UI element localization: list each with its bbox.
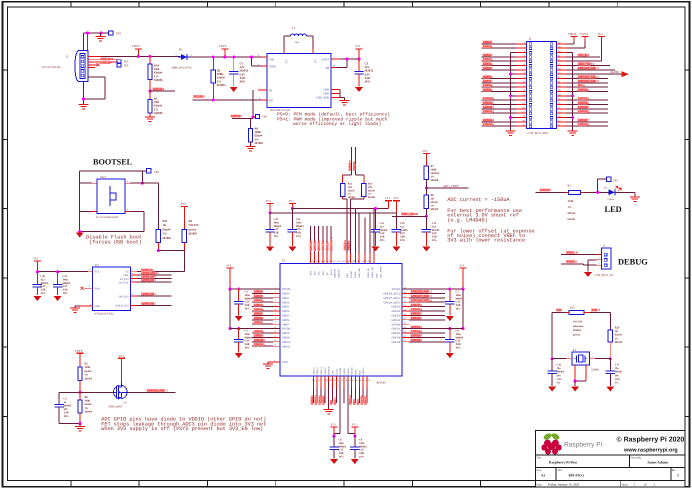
- U3 pin stubs left: [88, 271, 93, 273]
- svg-text:63mW: 63mW: [85, 403, 93, 406]
- resistor R2 VBUS to 3V3_EN: [212, 56, 215, 59]
- resistor R9: [425, 188, 427, 195]
- ground under C7: [446, 316, 454, 321]
- capacitor C5: [238, 329, 240, 340]
- svg-text:XOUT: XOUT: [335, 368, 338, 375]
- wire IOVDD verticals to chip top: [354, 209, 356, 254]
- svg-text:XIN: XIN: [332, 370, 335, 374]
- testpoint TP5: [597, 179, 599, 192]
- U1 bottom pin wires: [312, 376, 314, 382]
- svg-text:GPIO24: GPIO24: [153, 87, 164, 91]
- svg-text:GPIO24: GPIO24: [391, 310, 400, 313]
- svg-text:GPIO2: GPIO2: [282, 301, 290, 304]
- svg-text:D1: D1: [179, 48, 183, 52]
- svg-text:GPIO26_ADC0: GPIO26_ADC0: [383, 301, 400, 304]
- wire SW1 to R11: [142, 182, 158, 184]
- svg-text:41: 41: [404, 322, 406, 325]
- svg-text:2: 2: [599, 257, 600, 260]
- svg-text:DVDD: DVDD: [347, 368, 350, 375]
- svg-text:GPIO12: GPIO12: [312, 368, 315, 375]
- svg-text:1%: 1%: [85, 407, 89, 410]
- svg-text:USB_DM: USB_DM: [344, 239, 347, 250]
- resistor R4 NO-FIT: [182, 230, 186, 243]
- svg-text:GPIO5: GPIO5: [254, 312, 264, 316]
- resistor R11: [156, 230, 160, 243]
- wire R3 to LED: [584, 191, 608, 193]
- svg-text:GPIO10: GPIO10: [254, 338, 265, 342]
- svg-text:TP3: TP3: [124, 63, 129, 67]
- ground J2 left: [506, 130, 516, 132]
- svg-text:SWD: SWD: [353, 398, 356, 404]
- svg-text:M1005: M1005: [431, 208, 439, 211]
- svg-text:R16: R16: [615, 326, 620, 329]
- testpoint TP2: [117, 60, 121, 63]
- svg-text:R15: R15: [570, 305, 575, 309]
- title block frame: [536, 431, 686, 487]
- svg-text:10%: 10%: [296, 235, 302, 238]
- resistor R13 USB_DP: [363, 175, 365, 183]
- svg-text:C16: C16: [557, 364, 562, 367]
- svg-text:8: 8: [275, 317, 276, 320]
- svg-text:GND_PAD: GND_PAD: [316, 97, 329, 100]
- ground under C4: [235, 316, 243, 321]
- svg-text:20%: 20%: [400, 239, 406, 242]
- capacitor C11: [291, 209, 293, 230]
- svg-text:SWDIO: SWDIO: [567, 260, 578, 264]
- wire SWDIO to pin3: [582, 263, 584, 265]
- svg-text:GPIO16: GPIO16: [362, 367, 365, 375]
- ground under C1: [230, 87, 238, 92]
- ground under C10: [266, 247, 274, 252]
- svg-text:VCC: VCC: [95, 271, 101, 274]
- J2 left pin wires and GPIO net labels: [517, 43, 527, 45]
- svg-text:© Raspberry Pi 2020: © Raspberry Pi 2020: [617, 436, 685, 444]
- J2 right GPIO net labels: [567, 77, 609, 79]
- svg-text:X1: X1: [573, 348, 577, 352]
- svg-text:DMG3406T: DMG3406T: [109, 406, 123, 409]
- svg-text:IOVDD: IOVDD: [350, 271, 353, 278]
- svg-text:BOOTSEL: BOOTSEL: [93, 158, 133, 167]
- svg-text:RT6150B-33GQW: RT6150B-33GQW: [270, 109, 291, 112]
- svg-text:Raspberry Pi: Raspberry Pi: [564, 442, 603, 449]
- svg-text:DVDD: DVDD: [354, 271, 357, 278]
- svg-text:GPIO28_ADC2: GPIO28_ADC2: [411, 290, 432, 294]
- power 1V1 bottom: [347, 430, 349, 434]
- ground under C13: [422, 247, 430, 252]
- capacitor C13: [425, 218, 427, 230]
- svg-text:3V3: 3V3: [226, 263, 232, 267]
- svg-text:USB_VDD: USB_VDD: [358, 267, 361, 278]
- svg-text:C0G: C0G: [615, 378, 620, 381]
- svg-text:DVDD: DVDD: [343, 368, 346, 375]
- svg-text:when 3V3 supply is off (VSYS p: when 3V3 supply is off (VSYS present but…: [101, 426, 263, 432]
- svg-text:5: 5: [275, 304, 276, 307]
- pin 1 VBUS wire: [88, 55, 101, 57]
- wire QSPI_SS to BOOTSEL: [172, 271, 185, 273]
- svg-text:3V3: 3V3: [331, 422, 337, 426]
- net label XIN crystal: [556, 309, 561, 312]
- svg-text:GPIO1: GPIO1: [483, 44, 493, 48]
- ground under C9: [351, 459, 359, 464]
- X1 ground pins: [574, 365, 576, 381]
- svg-text:M1005: M1005: [154, 78, 163, 82]
- svg-text:L1: L1: [292, 26, 296, 30]
- pin stubs U2 left: [262, 56, 267, 58]
- svg-text:10%: 10%: [245, 347, 251, 350]
- wire USB_DM from USB port: [351, 147, 353, 175]
- svg-text:VSYS: VSYS: [580, 32, 588, 36]
- svg-text:RUN: RUN: [357, 399, 360, 405]
- svg-text:63mW: 63mW: [85, 370, 93, 373]
- buck regulator U2 RT6150B: [267, 54, 331, 108]
- U3 GND pin: [80, 305, 93, 307]
- svg-text:15p: 15p: [557, 367, 562, 370]
- svg-text:LED: LED: [605, 205, 622, 214]
- svg-text:12: 12: [274, 335, 276, 338]
- svg-text:GPIO13: GPIO13: [483, 109, 494, 113]
- J2 left GND rail: [510, 52, 512, 130]
- svg-text:(forces USB boot): (forces USB boot): [89, 239, 142, 245]
- svg-text:7: 7: [275, 313, 276, 316]
- svg-text:M0402: M0402: [368, 196, 376, 199]
- wire R11/R4 to QSPI_SS: [157, 243, 159, 251]
- capacitor C8: [449, 329, 451, 340]
- ground under C6: [330, 459, 338, 464]
- svg-text:TP1: TP1: [116, 32, 122, 36]
- net label GPIO23: [232, 118, 253, 120]
- capacitor C9: [354, 436, 356, 447]
- svg-text:WP_IO2: WP_IO2: [119, 295, 129, 298]
- svg-text:1V1: 1V1: [289, 199, 295, 203]
- power 3V3 for R4: [181, 206, 188, 208]
- capacitor C1: [232, 56, 235, 59]
- Raspberry Pi logo: [541, 432, 561, 454]
- capacitor C3: [358, 59, 360, 71]
- testpoint TP4: [252, 116, 255, 119]
- svg-text:CON_PICO_40W: CON_PICO_40W: [528, 132, 549, 135]
- svg-text:ADC_AVDD: ADC_AVDD: [402, 212, 420, 216]
- svg-text:GPIO5: GPIO5: [483, 66, 493, 70]
- svg-text:3V3: 3V3: [598, 32, 604, 36]
- svg-text:Date:: Date:: [537, 483, 543, 486]
- svg-text:VDD: VDD: [346, 273, 349, 278]
- svg-text:GPIO7: GPIO7: [282, 323, 290, 326]
- ground under C5: [235, 353, 243, 358]
- svg-text:57: 57: [274, 359, 276, 362]
- svg-text:TP4: TP4: [262, 115, 267, 119]
- net label GPIO29_ADC3: [128, 391, 175, 393]
- pin stubs U2 right: [331, 58, 340, 60]
- svg-text:TP-1251U48404503B: TP-1251U48404503B: [96, 216, 119, 219]
- U1 left GPIO wires and labels: [252, 292, 273, 294]
- svg-text:GPIO25: GPIO25: [540, 188, 551, 192]
- svg-text:Friday, January 15, 2021: Friday, January 15, 2021: [548, 483, 580, 487]
- svg-text:3V3: 3V3: [355, 44, 361, 48]
- svg-text:1%: 1%: [568, 206, 572, 209]
- svg-text:GPIO27_ADC1: GPIO27_ADC1: [383, 297, 400, 300]
- svg-text:USB_DP: USB_DP: [101, 61, 113, 65]
- svg-text:EN: EN: [269, 99, 273, 102]
- svg-text:GPIO19: GPIO19: [391, 337, 400, 340]
- svg-text:M1005: M1005: [217, 83, 226, 87]
- resistor R10: [149, 55, 152, 58]
- svg-text:GPIO20: GPIO20: [411, 329, 422, 333]
- svg-text:3V3_EN: 3V3_EN: [578, 53, 590, 57]
- svg-text:10%: 10%: [456, 308, 462, 311]
- svg-text:RPI-PICO: RPI-PICO: [569, 473, 585, 477]
- svg-text:3V3: 3V3: [422, 149, 428, 153]
- svg-text:GPIO23: GPIO23: [411, 312, 422, 316]
- svg-text:GPIO16: GPIO16: [578, 122, 589, 126]
- resistor R1: [149, 91, 151, 99]
- svg-text:QSPI_SD2: QSPI_SD2: [142, 292, 157, 296]
- capacitor C7: [449, 289, 451, 302]
- ground under R1: [149, 113, 151, 117]
- svg-text:SW1: SW1: [101, 176, 107, 179]
- svg-text:VSYS: VSYS: [219, 44, 227, 48]
- svg-text:M1005: M1005: [85, 377, 93, 380]
- svg-text:GND: GND: [323, 89, 329, 92]
- svg-text:GPIO22: GPIO22: [391, 319, 400, 322]
- svg-text:DEBUG: DEBUG: [618, 258, 648, 267]
- pin 5 GND wire: [88, 67, 95, 69]
- ground under R6: [250, 142, 252, 146]
- svg-text:GPIO23: GPIO23: [391, 315, 400, 318]
- svg-text:GPIO2: GPIO2: [254, 299, 264, 303]
- net label GPIO17 bottom: [366, 376, 368, 382]
- svg-text:R3: R3: [568, 184, 572, 188]
- svg-text:SCLK: SCLK: [330, 269, 333, 275]
- svg-text:10%: 10%: [339, 456, 345, 459]
- svg-text:VINA: VINA: [269, 65, 276, 68]
- svg-text:9: 9: [89, 285, 90, 288]
- border row ticks left/right: [3, 69, 8, 71]
- testpoint TP1: [109, 31, 113, 35]
- ground under C11: [288, 247, 296, 252]
- svg-text:1K: 1K: [615, 330, 618, 333]
- svg-text:GPIO17: GPIO17: [364, 395, 367, 405]
- power VBUS: [135, 48, 142, 50]
- svg-text:MBR120VLSFT1G: MBR120VLSFT1G: [172, 67, 193, 70]
- svg-text:M1005: M1005: [189, 232, 198, 236]
- svg-text:GPIO13: GPIO13: [316, 367, 319, 375]
- power 1V1 top rail: [289, 203, 296, 205]
- svg-text:power: power: [573, 333, 581, 336]
- U3 QSPI pin wires: [131, 271, 137, 273]
- capacitor C16: [551, 359, 553, 371]
- net label ADC_VREF pin35: [567, 64, 611, 66]
- svg-text:48: 48: [404, 291, 406, 294]
- svg-text:GPIO10: GPIO10: [282, 341, 291, 344]
- power 3V3 left rail: [227, 267, 234, 269]
- wire 3V3 rail top: [270, 212, 396, 214]
- svg-text:3V3: 3V3: [119, 354, 125, 358]
- svg-text:QSPI_SD3: QSPI_SD3: [310, 239, 313, 251]
- svg-text:GPIO26_ADC0: GPIO26_ADC0: [411, 299, 432, 303]
- svg-text:GPIO16: GPIO16: [361, 395, 364, 405]
- svg-text:GPIO12: GPIO12: [311, 395, 314, 405]
- wire VOUT to 3V3: [340, 58, 359, 60]
- svg-text:SD2: SD2: [314, 271, 317, 275]
- wire IOVDD right rail: [402, 288, 463, 290]
- svg-text:43: 43: [404, 313, 406, 316]
- svg-text:GPIO11: GPIO11: [282, 345, 291, 348]
- svg-text:20%: 20%: [41, 292, 47, 295]
- svg-text:XIN: XIN: [557, 308, 563, 312]
- svg-text:SWCLK: SWCLK: [567, 250, 579, 254]
- net label ADC_VREF: [425, 179, 427, 188]
- svg-text:GND: GND: [323, 93, 329, 96]
- svg-text:10%: 10%: [63, 292, 69, 295]
- svg-text:3V3: 3V3: [394, 196, 400, 200]
- svg-text:10%: 10%: [456, 347, 462, 350]
- svg-text:GPIO4: GPIO4: [254, 307, 264, 311]
- svg-text:Sheet: Sheet: [622, 483, 628, 486]
- svg-text:GPIO24: GPIO24: [411, 307, 422, 311]
- svg-text:GPIO8: GPIO8: [282, 332, 290, 335]
- svg-text:USB_DP: USB_DP: [353, 161, 356, 171]
- svg-text:CS: CS: [125, 270, 129, 273]
- svg-text:GPIO18: GPIO18: [578, 109, 589, 113]
- svg-text:M1005: M1005: [568, 212, 577, 215]
- svg-text:37: 37: [404, 339, 406, 342]
- wire PS/EN rail: [252, 90, 254, 117]
- svg-text:10%: 10%: [245, 308, 251, 311]
- svg-text:GPIO15: GPIO15: [483, 122, 494, 126]
- svg-text:of: of: [644, 483, 647, 487]
- ground LED: [630, 196, 640, 198]
- svg-text:2: 2: [275, 291, 276, 294]
- power 3V3 top rail: [267, 203, 274, 205]
- power VSYS pin39: [567, 47, 586, 49]
- wire crystal left: [551, 313, 553, 359]
- J2 right GND rail: [567, 51, 573, 53]
- svg-text:M1005: M1005: [255, 141, 264, 145]
- svg-text:5%: 5%: [557, 382, 561, 385]
- svg-text:GPIO5: GPIO5: [282, 315, 290, 318]
- svg-text:U3: U3: [95, 263, 99, 267]
- svg-text:56 55 54 53 52 51 50 49 48 47: 56 55 54 53 52 51 50 49 48 47 46 45: [311, 260, 371, 263]
- svg-text:USB_DP: USB_DP: [348, 240, 351, 250]
- svg-text:GPIO9: GPIO9: [282, 337, 290, 340]
- power 3V3 right rail: [460, 267, 467, 269]
- svg-text:4: 4: [275, 300, 276, 303]
- svg-text:GPIO28_ADC2: GPIO28_ADC2: [578, 66, 599, 70]
- capacitor C19: [36, 272, 38, 285]
- svg-text:QSPI_SD2: QSPI_SD2: [314, 239, 317, 251]
- svg-text:50V: 50V: [615, 374, 620, 377]
- net label USB_DM: [100, 58, 110, 61]
- svg-text:QSPI_SD3: QSPI_SD3: [142, 301, 157, 305]
- svg-text:QSPI_SD1: QSPI_SD1: [318, 239, 321, 251]
- svg-text:HOLD_IO3: HOLD_IO3: [116, 305, 130, 308]
- svg-text:1%: 1%: [615, 337, 619, 340]
- ground under J1: [79, 104, 89, 106]
- svg-text:11: 11: [274, 330, 276, 333]
- svg-text:XOUT: XOUT: [592, 308, 602, 312]
- net label 3V3_EN: [193, 99, 263, 101]
- svg-text:VREG_IN: VREG_IN: [367, 268, 370, 278]
- svg-text:GPIO3: GPIO3: [282, 306, 290, 309]
- svg-text:RP2040: RP2040: [377, 381, 387, 385]
- net label ADC_AVDD: [425, 209, 427, 217]
- svg-text:GPIO6: GPIO6: [282, 319, 290, 322]
- capacitor C10: [269, 213, 271, 230]
- svg-text:1: 1: [599, 252, 600, 255]
- svg-text:M1005: M1005: [615, 341, 623, 344]
- svg-text:3: 3: [275, 295, 276, 298]
- svg-text:(e.g. LM4040): (e.g. LM4040): [447, 217, 487, 223]
- svg-text:50V: 50V: [557, 374, 562, 377]
- svg-text:GPIO19: GPIO19: [411, 334, 422, 338]
- capacitor C14: [395, 213, 397, 230]
- svg-text:VDD: VDD: [376, 273, 379, 278]
- svg-text:worse efficiency at light load: worse efficiency at light loads): [293, 121, 381, 127]
- svg-text:VREG_OUT: VREG_OUT: [371, 266, 374, 278]
- svg-text:GPIO4: GPIO4: [282, 310, 290, 313]
- svg-text:46: 46: [404, 300, 406, 303]
- svg-text:M0402: M0402: [615, 371, 623, 374]
- svg-text:Raspberry Pi Pico: Raspberry Pi Pico: [549, 461, 577, 465]
- svg-text:tolerance: tolerance: [573, 325, 584, 328]
- svg-text:PS: PS: [269, 89, 273, 92]
- testpoint TP3: [117, 64, 121, 67]
- svg-text:QSPI_SD1: QSPI_SD1: [142, 278, 157, 282]
- ground DEBUG: [584, 272, 592, 277]
- ground under C8: [446, 353, 454, 358]
- resistor R12 USB_DM: [342, 175, 344, 183]
- svg-text:9: 9: [275, 322, 276, 325]
- svg-text:W25Q16JVUXIQ: W25Q16JVUXIQ: [94, 312, 114, 315]
- svg-text:5%: 5%: [615, 382, 619, 385]
- svg-text:Drawn By: Drawn By: [631, 457, 642, 460]
- svg-text:13: 13: [274, 339, 276, 342]
- svg-text:NO-FIT: NO-FIT: [573, 321, 583, 324]
- ground J2 right: [568, 130, 578, 132]
- svg-text:44: 44: [404, 308, 406, 311]
- svg-text:GPIO9: GPIO9: [254, 334, 264, 338]
- svg-text:3V3_EN: 3V3_EN: [194, 95, 206, 99]
- svg-text:GPIO1: GPIO1: [254, 294, 264, 298]
- wire IOVDD left rail: [230, 288, 280, 290]
- svg-text:IOVDD: IOVDD: [282, 288, 290, 291]
- svg-text:CON_PICO_3W: CON_PICO_3W: [595, 274, 614, 277]
- svg-text:SD1: SD1: [318, 271, 321, 275]
- svg-text:M1005: M1005: [85, 411, 93, 414]
- svg-text:20%: 20%: [432, 239, 438, 242]
- svg-text:63mW: 63mW: [568, 218, 576, 221]
- svg-text:1V1: 1V1: [385, 196, 391, 200]
- wire flash VCC rail: [37, 271, 88, 273]
- svg-text:USB_DP: USB_DP: [338, 269, 341, 278]
- ground under C12: [372, 247, 380, 252]
- net label GPIO28_ADC2 pin34: [567, 69, 616, 71]
- svg-text:Rev: Rev: [672, 469, 677, 472]
- resistor R7: [424, 166, 428, 180]
- svg-text:GPIO29_ADC3: GPIO29_ADC3: [147, 388, 168, 392]
- wire VBUS main: [101, 55, 181, 57]
- svg-text:GPIO23: GPIO23: [231, 114, 242, 118]
- svg-text:www.raspberrypi.org: www.raspberrypi.org: [623, 448, 678, 454]
- svg-text:3: 3: [599, 263, 600, 266]
- svg-text:1: 1: [132, 269, 133, 272]
- resistor R6: [250, 119, 252, 129]
- wire LED to ground: [615, 191, 635, 193]
- svg-text:CLK: CLK: [123, 274, 128, 277]
- svg-text:Green: Green: [608, 198, 615, 201]
- svg-text:GPIO20: GPIO20: [391, 332, 400, 335]
- resistor R16: [608, 330, 612, 342]
